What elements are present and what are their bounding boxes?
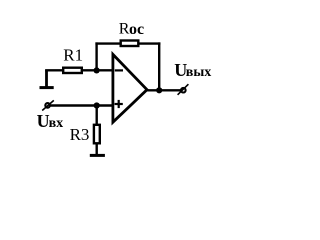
wire R3 bottom lead (95, 143, 97, 155)
svg-text:вых: вых (186, 65, 212, 80)
ground (bottom, R3) (90, 154, 105, 157)
wire feedback top left (95, 42, 121, 44)
wire feedback drop to output (158, 42, 160, 90)
wire feedback riser left (95, 42, 97, 70)
label Roc (119, 21, 144, 38)
svg-text:R3: R3 (70, 125, 90, 144)
node junction at inverting input (94, 67, 100, 73)
wire op-amp output (147, 89, 181, 91)
op-amp U1 (113, 54, 147, 122)
resistor Roc (121, 41, 139, 47)
wire input terminal to non-inverting input (51, 104, 114, 106)
resistor R1 (63, 68, 82, 73)
node junction at non-inverting input (94, 102, 100, 108)
node junction at output (156, 87, 162, 93)
terminal Uvyh (output) (178, 84, 189, 95)
terminal Uvx (input) (42, 100, 54, 110)
svg-text:ос: ос (129, 21, 144, 38)
resistor R3 (94, 125, 100, 144)
wire R3 top lead (95, 106, 97, 126)
wire R1 to inverting input (82, 69, 113, 71)
label Uvx (37, 111, 64, 131)
wire feedback top right (138, 42, 160, 44)
wire ground to R1 (45, 69, 63, 71)
ground (left, R1 input) (40, 70, 54, 88)
svg-text:вх: вх (49, 116, 64, 131)
label Uvyh (174, 60, 211, 80)
svg-text:R1: R1 (63, 45, 83, 64)
